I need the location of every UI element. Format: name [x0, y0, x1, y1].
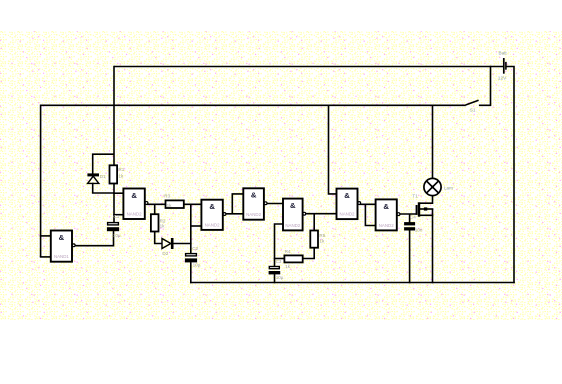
wire R5 bottom to R4 right [302, 248, 314, 259]
lamp Lam [424, 178, 453, 195]
svg-text:D2: D2 [162, 251, 168, 256]
NAND gate U1 [51, 231, 75, 262]
wire D2 cathode to node [172, 243, 191, 245]
svg-text:NAND1: NAND1 [54, 254, 69, 259]
wire main vertical R1 branch [113, 66, 115, 223]
wire R4 left link [274, 258, 285, 260]
svg-text:Batt: Batt [499, 51, 508, 56]
svg-text:C1: C1 [113, 214, 119, 219]
wire bottom ground rail [190, 282, 515, 284]
wire U1 input stub B [40, 256, 52, 258]
resistor R5 1k [310, 231, 325, 248]
svg-text:NAND2: NAND2 [379, 223, 394, 228]
wire switched supply rail [41, 104, 466, 106]
capacitor C4 10n [404, 215, 423, 233]
wire switch to top rail link [479, 66, 491, 106]
svg-text:R3: R3 [164, 194, 170, 199]
wire node vertical R3/D2/C2 [190, 204, 192, 254]
wire D1 parallel bottom link [93, 183, 114, 193]
svg-text:&: & [59, 233, 65, 242]
wire lamp drop from rail [432, 105, 434, 179]
diode D2 [162, 238, 174, 256]
NAND gate U7 [376, 199, 400, 230]
svg-text:C4: C4 [410, 215, 416, 220]
wire top +12V rail [114, 66, 503, 68]
capacitor C3 10u electrolytic [269, 259, 284, 280]
svg-text:&: & [251, 191, 257, 200]
wire T1 source to ground rail [432, 209, 434, 284]
svg-text:&: & [290, 201, 296, 210]
resistor R1 1k [110, 165, 125, 183]
svg-text:NAND2: NAND2 [205, 222, 220, 227]
svg-text:NAND2: NAND2 [246, 212, 261, 217]
wire lamp to T1 drain [420, 196, 433, 204]
wire U7 output to T1 gate [400, 213, 417, 215]
wire U6 input A drop from rail [329, 105, 338, 194]
resistor R4 1k [284, 249, 302, 269]
svg-text:10µ: 10µ [113, 233, 121, 238]
wire C4 to ground rail [409, 230, 411, 283]
svg-text:R1: R1 [118, 167, 124, 172]
NAND gate U4 [243, 188, 267, 219]
wire R2 bottom to D2 anode [155, 231, 162, 243]
wire R5 top stub [313, 214, 315, 231]
svg-text:NAND2: NAND2 [340, 212, 355, 217]
wire T1 source lead [420, 214, 434, 216]
svg-text:1k: 1k [167, 203, 173, 208]
svg-text:10µ: 10µ [193, 263, 201, 268]
wire U3 output to U4 input B [225, 213, 244, 215]
wire battery plus to right corner drop [506, 67, 514, 284]
svg-text:C3: C3 [276, 259, 282, 264]
svg-text:&: & [383, 202, 389, 211]
svg-text:1k: 1k [285, 264, 291, 269]
svg-text:NAND2: NAND2 [127, 211, 142, 216]
wire C2 to ground rail [190, 262, 192, 283]
svg-text:10n: 10n [415, 228, 423, 233]
wire C4 top stub [409, 214, 411, 223]
transistor T1 (N-MOSFET) [412, 193, 420, 216]
svg-text:&: & [209, 202, 215, 211]
NAND gate U3 [201, 200, 226, 230]
wire left drop to U1 inputs [40, 105, 42, 257]
svg-text:1k: 1k [319, 238, 325, 243]
wire T1 bulk lead [420, 208, 434, 210]
wire U1 output to C1 bottom [74, 231, 114, 246]
wire U4 input A branch [232, 194, 244, 214]
wire U6 output to U7 input A [359, 203, 377, 205]
svg-text:10µ: 10µ [276, 275, 284, 280]
wire U7 input B branch [365, 204, 376, 225]
wire U2 input stub B [113, 214, 124, 216]
junction dot T1 bulk [424, 207, 427, 210]
svg-text:R4: R4 [285, 249, 291, 254]
wire R2 top stub [154, 204, 156, 214]
svg-text:1k: 1k [118, 173, 124, 178]
NAND gate U2 [123, 189, 148, 220]
resistor R2 1k [151, 214, 166, 231]
wire U2 output through R3 to U3 input A [146, 203, 202, 205]
capacitor C1 10u electrolytic [107, 214, 121, 238]
capacitor C2 10u electrolytic [185, 246, 201, 267]
wire D1 parallel top link [93, 154, 114, 174]
wire U4 output to U5 input A [266, 203, 284, 205]
wire C3 to ground rail [274, 274, 276, 283]
svg-text:C2: C2 [192, 246, 198, 251]
svg-text:Lam: Lam [444, 185, 453, 190]
svg-text:&: & [344, 191, 350, 200]
wire U3 input stub B [190, 225, 202, 227]
switch S1 [466, 100, 479, 112]
wire U2 input stub A [113, 192, 124, 194]
wire U1 input stub A [40, 235, 52, 237]
svg-text:1k: 1k [160, 223, 166, 228]
wire U5 output to U6 input B [304, 213, 337, 215]
battery Batt 12V [498, 51, 508, 82]
svg-text:12V: 12V [498, 76, 507, 82]
svg-text:D1: D1 [100, 174, 106, 179]
diode D1 [87, 173, 106, 183]
svg-text:&: & [131, 191, 137, 200]
svg-text:NAND2: NAND2 [285, 223, 300, 228]
svg-text:T1: T1 [412, 193, 418, 198]
NAND gate U5 [283, 199, 306, 231]
svg-text:S1: S1 [470, 108, 476, 113]
NAND gate U6 [337, 189, 361, 220]
resistor R3 1k [164, 194, 184, 208]
wire U5 input B branch vertical [275, 224, 284, 266]
